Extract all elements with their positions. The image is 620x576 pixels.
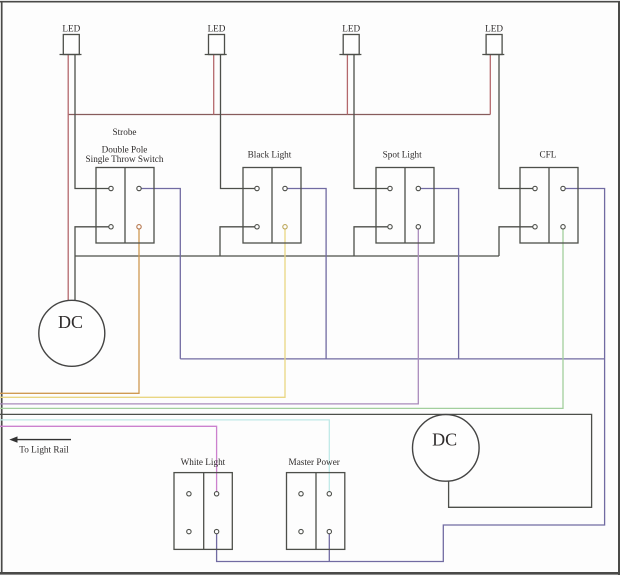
svg-text:Black Light: Black Light xyxy=(248,150,292,160)
terminal S3 lower-left xyxy=(388,225,392,229)
terminal S1 lower-left xyxy=(109,225,113,229)
wire: red LED4 lead xyxy=(489,55,491,115)
wire: LED1 cathode to Strobe switch upper-left terminal xyxy=(75,55,111,189)
wire: magenta from left rail to White Light upper-right terminal xyxy=(0,426,217,494)
svg-text:Single Throw Switch: Single Throw Switch xyxy=(86,154,164,164)
svg-text:LED: LED xyxy=(62,24,80,34)
terminal S5 lower-right xyxy=(214,529,218,533)
wire: Spot Light lower-left terminal to common bus xyxy=(354,227,390,256)
wire: Master Power lower-right terminal to bottom blue run xyxy=(328,532,330,562)
terminal S6 lower-right xyxy=(327,529,331,533)
svg-text:Spot Light: Spot Light xyxy=(383,150,422,160)
terminal S2 upper-right xyxy=(283,186,287,190)
svg-text:LED: LED xyxy=(208,24,226,34)
LED D1 xyxy=(60,35,82,55)
wire: cyan from left rail to Master Power upper-right terminal xyxy=(0,420,329,494)
terminal S6 lower-left xyxy=(299,529,303,533)
terminal S4 lower-right xyxy=(561,225,565,229)
terminal S3 lower-right xyxy=(416,225,420,229)
wire: blue bus joining switch upper-right terminals xyxy=(180,358,604,360)
wire: LED2 cathode to Black Light switch upper-left terminal xyxy=(221,55,258,189)
svg-text:Master Power: Master Power xyxy=(289,457,340,467)
switch S4 CFL xyxy=(520,168,578,244)
wire: CFL lower-left terminal to common bus xyxy=(499,227,535,256)
wire: black run from left rail around DC source 2 xyxy=(0,414,592,507)
terminal S4 lower-left xyxy=(533,225,537,229)
terminal S6 upper-right xyxy=(327,492,331,496)
wire: red bus connecting LED anodes xyxy=(68,114,490,116)
terminal S3 upper-right xyxy=(416,186,420,190)
svg-text:DC: DC xyxy=(432,430,457,450)
wire: green from CFL lower-right terminal to left rail xyxy=(0,227,563,409)
wire: black common bus under switches xyxy=(75,255,499,257)
wire: red LED2 lead xyxy=(213,55,215,115)
wire: Strobe upper-right terminal to blue bus xyxy=(139,189,180,359)
terminal S6 upper-left xyxy=(299,492,303,496)
wire: orange from Strobe lower-right terminal to left rail xyxy=(0,227,139,393)
svg-text:LED: LED xyxy=(485,24,503,34)
wire: CFL upper-right terminal down right side to bottom blue run xyxy=(217,189,605,562)
terminal S5 upper-left xyxy=(187,492,191,496)
svg-text:Double Pole: Double Pole xyxy=(102,145,148,155)
wire: Black Light upper-right terminal to blue bus xyxy=(285,189,326,359)
switch S1 Strobe double pole single throw xyxy=(96,168,154,244)
terminal S4 upper-right xyxy=(561,186,565,190)
terminal S1 upper-left xyxy=(109,186,113,190)
wire: LED3 cathode to Spot Light switch upper-left terminal xyxy=(354,55,390,189)
LED D4 xyxy=(482,35,504,55)
wire: red LED1 lead down to DC source xyxy=(67,55,69,301)
terminal S2 lower-left xyxy=(255,225,259,229)
terminal S1 upper-right xyxy=(137,186,141,190)
wire: Strobe switch lower-left terminal down to DC source xyxy=(75,227,111,301)
LED D2 xyxy=(205,35,227,55)
terminal S5 upper-right xyxy=(214,492,218,496)
terminal S1 lower-right xyxy=(137,225,141,229)
terminal S3 upper-left xyxy=(388,186,392,190)
wire: Black Light lower-left terminal to common bus xyxy=(220,227,257,256)
svg-text:CFL: CFL xyxy=(539,150,556,160)
DC source B1 xyxy=(39,300,105,366)
terminal S2 lower-right xyxy=(283,225,287,229)
wire: yellow from Black Light lower-right terminal to left rail xyxy=(0,227,285,397)
terminal S5 lower-left xyxy=(187,529,191,533)
wire: Spot Light upper-right terminal to blue bus xyxy=(418,189,458,359)
switch S6 Master Power xyxy=(287,473,345,550)
svg-text:To Light Rail: To Light Rail xyxy=(19,445,69,455)
terminal S4 upper-left xyxy=(533,186,537,190)
wire: LED4 cathode to CFL switch upper-left terminal xyxy=(499,55,535,189)
switch S2 Black Light xyxy=(243,168,301,244)
svg-text:LED: LED xyxy=(342,24,360,34)
LED D3 xyxy=(339,35,361,55)
svg-text:White Light: White Light xyxy=(181,457,226,467)
terminal S2 upper-left xyxy=(255,186,259,190)
node: To Light Rail arrow xyxy=(9,436,71,454)
switch S5 White Light xyxy=(174,473,232,550)
svg-text:Strobe: Strobe xyxy=(113,127,137,137)
svg-text:DC: DC xyxy=(58,312,83,332)
DC source B2 xyxy=(413,415,480,482)
switch S3 Spot Light xyxy=(376,168,434,244)
wire: purple from Spot Light lower-right terminal to left rail xyxy=(0,227,418,404)
wire: red LED3 lead xyxy=(346,55,348,115)
